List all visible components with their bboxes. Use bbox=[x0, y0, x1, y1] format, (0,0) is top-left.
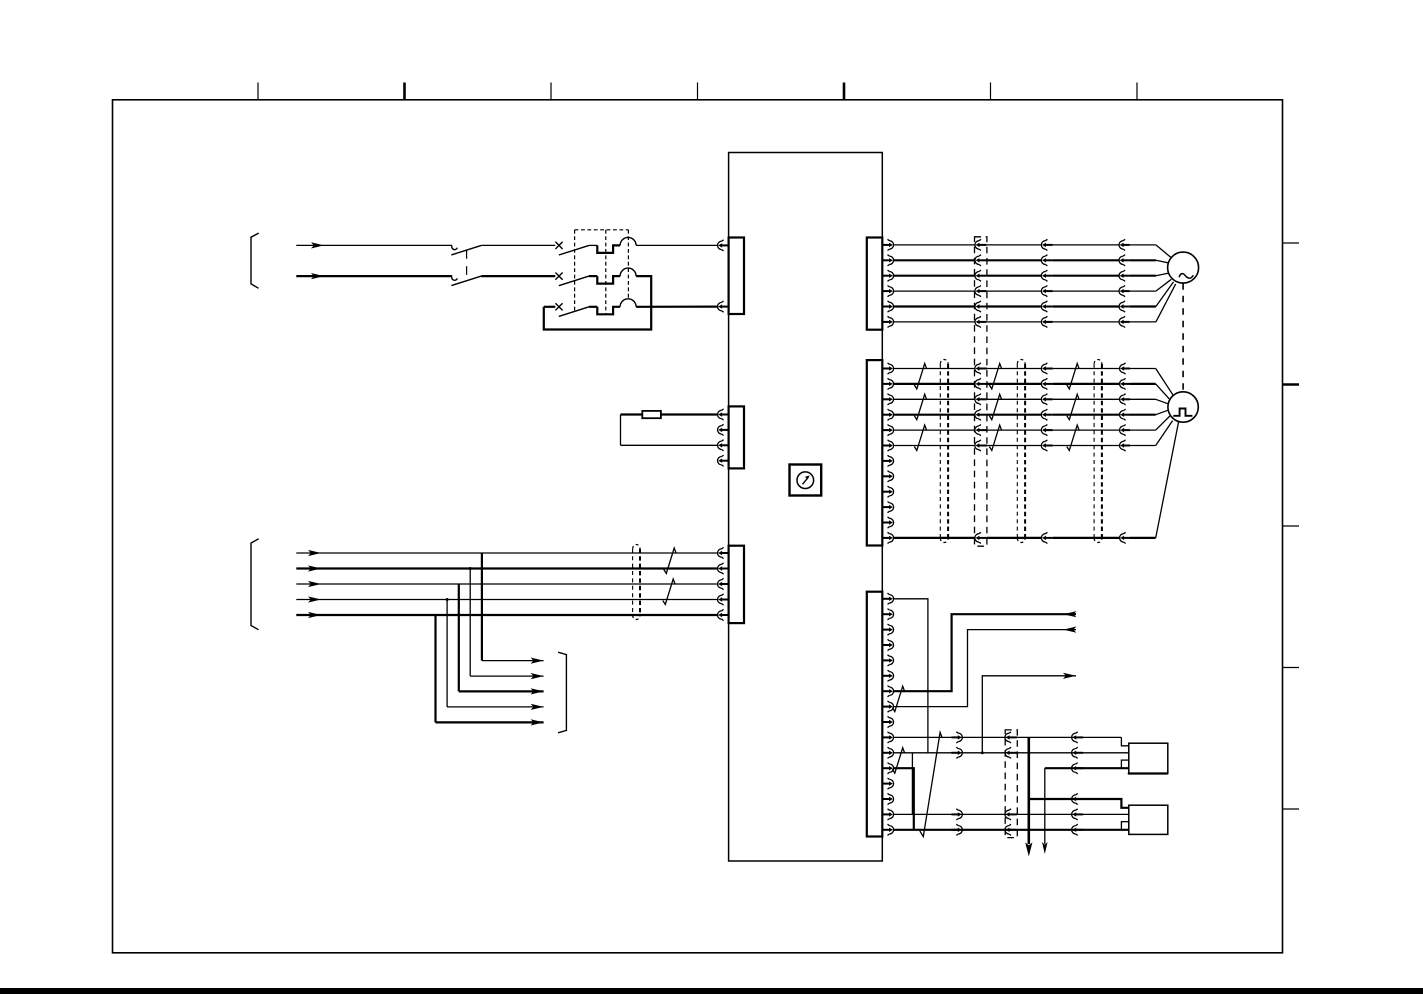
breaker QF1 trip-linkage (dashed box) bbox=[575, 230, 629, 315]
motor power wire 2 bbox=[893, 260, 1168, 263]
inline connector column 3 (encoder cable) bbox=[1120, 363, 1131, 544]
branch tap 2 to monitor output bbox=[469, 567, 544, 679]
branch tap 5 to monitor output bbox=[436, 615, 544, 726]
wire breaker pole1 to CN1 pin1 bbox=[636, 244, 718, 246]
cable shield 2 (encoder cable) bbox=[1017, 360, 1025, 543]
breaker pole3 bypass loop bbox=[544, 307, 651, 330]
drawing frame border bbox=[113, 100, 1283, 953]
wire resistor to corner bbox=[621, 413, 643, 415]
input group bracket (top left) bbox=[251, 233, 259, 288]
wire CN6 pin12 drop bbox=[893, 768, 914, 830]
wire breaker pole2 output drop bbox=[636, 276, 651, 307]
inline connector column 3 (motor cable) bbox=[1119, 239, 1130, 327]
branch tap 1 to monitor output bbox=[482, 553, 544, 664]
device D1 box bbox=[1129, 743, 1168, 773]
twisted pair marks set 2 (encoder cable) bbox=[989, 364, 1001, 451]
cable shield 3 (encoder cable) bbox=[1094, 359, 1102, 542]
wire CN6 pin8 to output B bbox=[893, 627, 1076, 707]
command group bracket (left) bbox=[251, 539, 259, 630]
connector CN4 (right, motor power) bbox=[867, 238, 894, 330]
meter P1 (indicator inside control unit) bbox=[790, 465, 822, 496]
monitor output bracket (right) bbox=[558, 652, 566, 733]
twisted pair mark (I/O cable bundle) bbox=[920, 732, 942, 836]
encoder signal wire 4 bbox=[893, 410, 1168, 415]
encoder signal wire 3 bbox=[893, 399, 1168, 404]
title block bar (bottom of page) bbox=[0, 988, 1423, 994]
wire CN6 pin10 to device tab bbox=[893, 737, 1129, 745]
cable shield 1 (encoder cable) bbox=[940, 360, 948, 543]
wire CN6 pin7 to output A bbox=[893, 611, 1076, 691]
device D2 box bbox=[1129, 805, 1168, 834]
inline connector column 1 (motor cable) bbox=[975, 239, 987, 327]
command wire 5 into CN3 bbox=[296, 612, 718, 618]
encoder signal wire 2 bbox=[893, 384, 1169, 399]
encoder G1 (pulse generator) bbox=[1168, 392, 1198, 422]
twisted pair mark (pins 7-8) bbox=[892, 686, 904, 711]
connector housing (dashed) for I/O cable bbox=[1005, 730, 1017, 838]
command wire 4 into CN3 bbox=[296, 596, 718, 602]
connector CN1 (left, power input) bbox=[718, 238, 745, 315]
twisted pair marks set 3 (encoder cable) bbox=[1067, 364, 1079, 451]
connector CN3 (left, command input) bbox=[718, 546, 745, 623]
encoder signal wire 1 bbox=[893, 369, 1173, 396]
twisted pair marks set 1 (encoder cable) bbox=[914, 364, 926, 451]
connector CN2 (left) bbox=[718, 406, 745, 468]
wire loop return to CN2 pin3 bbox=[621, 444, 719, 446]
circuit breaker QF1 pole 3 bbox=[555, 299, 636, 317]
connector CN5 (right, encoder feedback) bbox=[867, 360, 894, 545]
circuit breaker QF1 pole 1 bbox=[555, 237, 636, 255]
mechanical coupling (dashed link motor-encoder) bbox=[1182, 283, 1184, 391]
disconnect switch S1 pole 2 bbox=[451, 276, 555, 286]
encoder signal wire 5 bbox=[893, 416, 1170, 430]
motor M1 (AC servomotor) bbox=[1168, 252, 1199, 283]
twisted pair mark (command wires 3-4) bbox=[663, 579, 675, 605]
wire L1 (phase input, thin) bbox=[296, 242, 452, 248]
command wire 2 into CN3 bbox=[296, 565, 718, 571]
inline connector column (I/O cable, unit side) bbox=[951, 732, 962, 836]
circuit breaker QF1 pole 2 bbox=[555, 268, 636, 286]
encoder shield/ground wire bbox=[893, 421, 1179, 538]
command wire 3 into CN3 bbox=[296, 581, 718, 587]
right edge tick marks bbox=[1283, 243, 1300, 809]
inline connector column (I/O cable, device side) bbox=[1072, 732, 1083, 836]
device D1 box bottom edge bbox=[1128, 772, 1168, 774]
wire L2 (phase input, thick) bbox=[296, 273, 452, 279]
motor power wire 4 bbox=[893, 279, 1171, 291]
disconnect switch S1 pole 1 bbox=[451, 245, 555, 255]
wire CN2 pin1 to resistor bbox=[661, 413, 718, 415]
wire pole3 output to CN1 pin2 bbox=[636, 306, 718, 308]
connector CN6 (right, I/O) bbox=[867, 592, 894, 837]
wire CN6 pin11 to device D1 bbox=[893, 752, 1129, 754]
device D2 feed from drain bbox=[1029, 799, 1129, 808]
wire breaker pole3 feed bbox=[544, 306, 556, 308]
cable shield (command cable) bbox=[633, 545, 640, 620]
branch tap 3 to monitor output bbox=[459, 584, 544, 695]
twisted pair mark (pins 11-12) bbox=[892, 748, 904, 773]
branch tap 4 to monitor output bbox=[446, 598, 544, 710]
inline connector column 1 (encoder cable) bbox=[975, 363, 987, 544]
encoder signal wire 6 bbox=[893, 421, 1173, 446]
resistor R1 bbox=[642, 411, 661, 418]
wire CN6 pin1 branch bbox=[893, 599, 928, 753]
wire loop vertical bbox=[620, 415, 622, 446]
command wire 1 into CN3 bbox=[296, 550, 718, 556]
motor power wire 1 bbox=[893, 245, 1171, 258]
shield drain (thick) with down arrow bbox=[1025, 737, 1032, 856]
wire pin11 drop to pin15 net bbox=[911, 753, 913, 815]
switch S1 mechanical link (dashed) bbox=[466, 250, 468, 276]
device D1 ground wire bbox=[1042, 760, 1129, 854]
motor power wire 3 bbox=[893, 273, 1168, 276]
output C branch from pin11 net bbox=[981, 673, 1076, 755]
motor power wire 5 bbox=[893, 282, 1174, 307]
wire CN6 pin15 to device D2 bbox=[893, 813, 1129, 815]
motor power wire 6 bbox=[893, 284, 1176, 322]
inline connector column 2 (encoder cable) bbox=[1041, 363, 1053, 544]
twisted pair mark (command wires 1-2) bbox=[664, 548, 676, 574]
top edge tick marks bbox=[258, 83, 1137, 100]
connector housing (dashed) for motor/encoder cables bbox=[975, 237, 987, 546]
inline connector column (I/O cable, housing) bbox=[1005, 732, 1017, 836]
control unit box bbox=[729, 153, 883, 862]
wire CN6 pin16 to device D2 bbox=[893, 822, 1129, 830]
inline connector column 2 (motor cable) bbox=[1041, 239, 1053, 327]
